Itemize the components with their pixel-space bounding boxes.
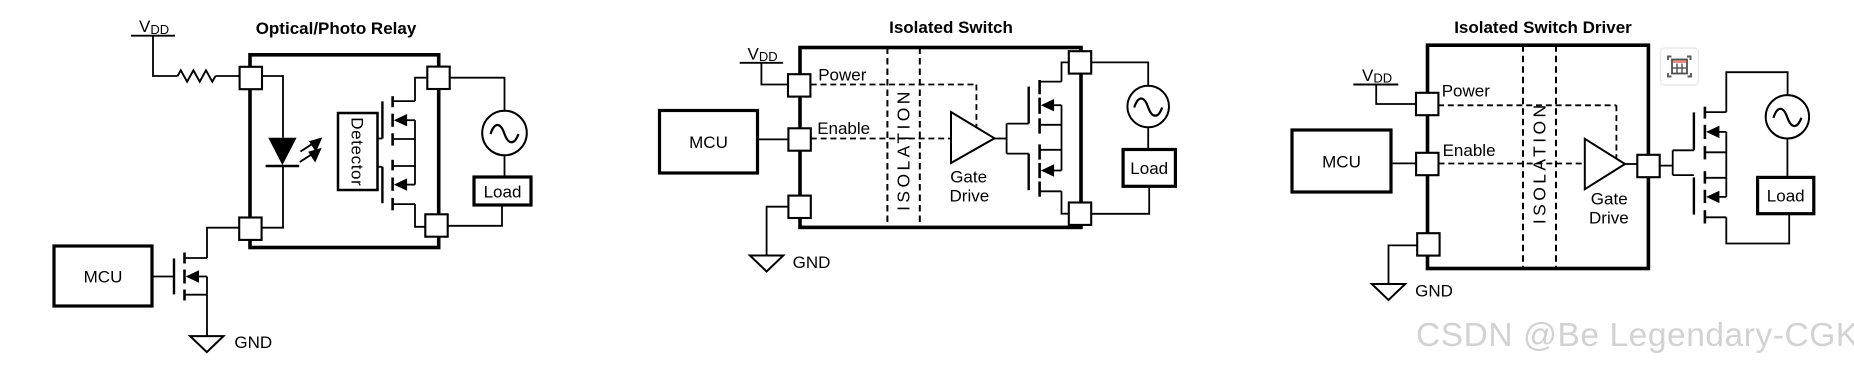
wire VDD to power pin	[761, 63, 787, 85]
svg-text:GND: GND	[1415, 281, 1453, 300]
svg-text:ISOLATION: ISOLATION	[894, 88, 914, 211]
isolation barrier (right dashed line, circuit 3)	[1555, 45, 1557, 268]
wire Q6 drain to AC source 3	[1726, 72, 1787, 112]
pin GND	[788, 196, 810, 218]
pin 4 (drain out, top-right)	[427, 67, 449, 89]
wire gate drive output to pin	[1625, 163, 1637, 165]
wire top-right pin to AC source	[1091, 62, 1148, 85]
wire gate node bracket 3	[1672, 150, 1674, 175]
wire MCU to enable pin	[758, 138, 789, 140]
wire Q2 drain to pin 3	[415, 204, 425, 227]
pin switch out (top-right)	[1069, 51, 1091, 73]
MCU block (circuit 1)	[54, 246, 152, 306]
load RL3	[1758, 177, 1814, 213]
svg-text:Drive: Drive	[950, 187, 990, 206]
wire VDD to resistor	[153, 36, 178, 76]
pin 1 (anode, top-left)	[240, 67, 262, 89]
svg-text:Load: Load	[1767, 187, 1805, 206]
load RL1	[474, 177, 531, 205]
pin gate drive output	[1637, 155, 1659, 177]
isolation barrier (right dashed line, circuit 2)	[919, 48, 921, 228]
wire LED cathode to pin 2	[262, 166, 283, 228]
wire GND pin to ground	[767, 207, 789, 256]
wire common source node Q1-Q2	[414, 120, 416, 184]
svg-text:GND: GND	[234, 333, 272, 352]
AC source V3	[1766, 95, 1809, 138]
svg-text:MCU: MCU	[84, 268, 123, 287]
wire gate drive output	[995, 138, 1007, 140]
AC source V1	[482, 111, 527, 156]
resistor R1	[178, 70, 216, 81]
pin GND (circuit 3)	[1417, 233, 1439, 255]
isolated switch driver IC box U3	[1428, 45, 1649, 268]
dashed power feed to gate drive	[975, 85, 977, 127]
wire Q5 drain to bottom-right pin	[1062, 191, 1069, 213]
wire MCU to enable pin 3	[1391, 162, 1416, 164]
wire AC source 3 to load 3	[1786, 139, 1788, 178]
gate drive buffer U2a	[951, 112, 995, 163]
pin EN (enable, circuit 3)	[1416, 153, 1438, 175]
svg-text:Load: Load	[1130, 159, 1168, 178]
isolation barrier (left dashed line, circuit 3)	[1522, 45, 1524, 268]
optical coupling arrows	[300, 137, 323, 162]
pin 3 (drain out, bottom-right)	[425, 214, 447, 236]
dashed power feed 3	[1438, 104, 1616, 106]
svg-text:Detector: Detector	[348, 117, 367, 186]
wire Q3 source to ground	[206, 295, 208, 336]
optical relay IC box U1	[250, 55, 439, 248]
wire Q3 drain to pin 2	[207, 228, 239, 258]
pin 2 (cathode, bottom-left)	[239, 218, 261, 240]
wire MCU to Q3 gate	[152, 276, 174, 278]
svg-text:Optical/Photo Relay: Optical/Photo Relay	[256, 19, 417, 38]
input MOSFET Q3	[174, 253, 207, 301]
svg-text:Power: Power	[1442, 82, 1491, 101]
ground (circuit 1)	[190, 336, 223, 352]
svg-text:Gate: Gate	[950, 167, 987, 186]
wire VDD to power pin 3	[1376, 85, 1416, 105]
wire pin1 to LED anode	[262, 76, 283, 138]
wire output pin to gate node	[1660, 165, 1673, 167]
wire Q4 drain to top-right pin	[1062, 62, 1069, 81]
svg-text:Load: Load	[484, 183, 522, 202]
external MOSFET Q7 (bottom)	[1694, 171, 1726, 223]
wire to Q7 gate	[1673, 174, 1694, 176]
pin switch out (bottom-right)	[1069, 203, 1091, 225]
VDD supply rail (circuit 2)	[740, 44, 783, 64]
wire pin 4 to AC source	[450, 78, 505, 111]
wire gate node bracket	[1006, 124, 1008, 154]
dashed power feed	[811, 84, 977, 86]
isolated switch IC box U2	[800, 48, 1081, 228]
svg-text:CSDN @Be Legendary-CGK: CSDN @Be Legendary-CGK	[1416, 317, 1854, 354]
wire to Q5 gate	[1007, 153, 1029, 155]
ground (circuit 3)	[1372, 284, 1405, 300]
svg-text:Isolated Switch: Isolated Switch	[889, 18, 1013, 37]
wire detector to Q1 gate	[378, 138, 383, 140]
svg-text:ISOLATION: ISOLATION	[1530, 101, 1550, 224]
output MOSFET Q2 (bottom)	[382, 160, 415, 211]
dashed enable signal to gate drive	[811, 138, 951, 140]
wire Q1 drain to pin 4	[415, 78, 427, 101]
wire load 3 to Q7 drain	[1726, 214, 1789, 244]
svg-text:MCU: MCU	[1322, 153, 1361, 172]
wire to Q6 gate	[1673, 149, 1694, 151]
CSDN editor icon button	[1661, 48, 1699, 85]
svg-text:Power: Power	[818, 66, 867, 85]
VDD supply rail (circuit 3)	[1353, 66, 1398, 86]
pin EN (enable)	[788, 128, 810, 150]
svg-text:MCU: MCU	[689, 133, 728, 152]
wire detector to Q2 gate	[378, 166, 383, 168]
dashed enable signal to gate drive 3	[1439, 163, 1585, 165]
gate drive buffer U3a	[1585, 139, 1625, 189]
wire AC source to load	[504, 155, 506, 177]
svg-text:Enable: Enable	[1443, 141, 1496, 160]
svg-text:Enable: Enable	[817, 119, 870, 138]
MCU block (circuit 3)	[1292, 130, 1391, 192]
wire resistor to pin 1	[216, 75, 240, 77]
svg-text:Drive: Drive	[1589, 209, 1629, 228]
wire to Q4 gate	[1007, 123, 1029, 125]
external MOSFET Q6 (top)	[1694, 107, 1726, 160]
wire load 2 to bottom-right pin	[1092, 186, 1150, 214]
dashed power feed to gate drive 3	[1615, 105, 1617, 158]
wire GND pin to ground 3	[1389, 245, 1418, 284]
svg-text:Isolated Switch Driver: Isolated Switch Driver	[1454, 18, 1632, 37]
detector block	[338, 113, 378, 190]
load RL2	[1123, 150, 1175, 187]
LED D1 (emitter)	[266, 138, 300, 166]
ground (circuit 2)	[750, 256, 783, 272]
svg-text:GND: GND	[793, 253, 831, 272]
wire common source node Q4-Q5	[1061, 105, 1063, 170]
svg-text:Gate: Gate	[1591, 190, 1628, 209]
pin VDD (power, circuit 3)	[1416, 93, 1438, 115]
VDD supply rail (circuit 1)	[131, 17, 175, 37]
pin VDD (power)	[788, 74, 810, 96]
MCU block (circuit 2)	[660, 111, 758, 174]
AC source V2	[1127, 86, 1169, 128]
isolation barrier (left dashed line, circuit 2)	[886, 48, 888, 228]
switch MOSFET Q4 (top)	[1029, 80, 1062, 134]
switch MOSFET Q5 (bottom)	[1029, 144, 1062, 196]
wire AC source to load 2	[1147, 127, 1149, 149]
output MOSFET Q1 (top)	[382, 96, 415, 145]
wire common source node Q6-Q7	[1725, 132, 1727, 197]
wire Q3 body-source	[206, 277, 208, 295]
wire load to pin 3	[448, 205, 502, 226]
